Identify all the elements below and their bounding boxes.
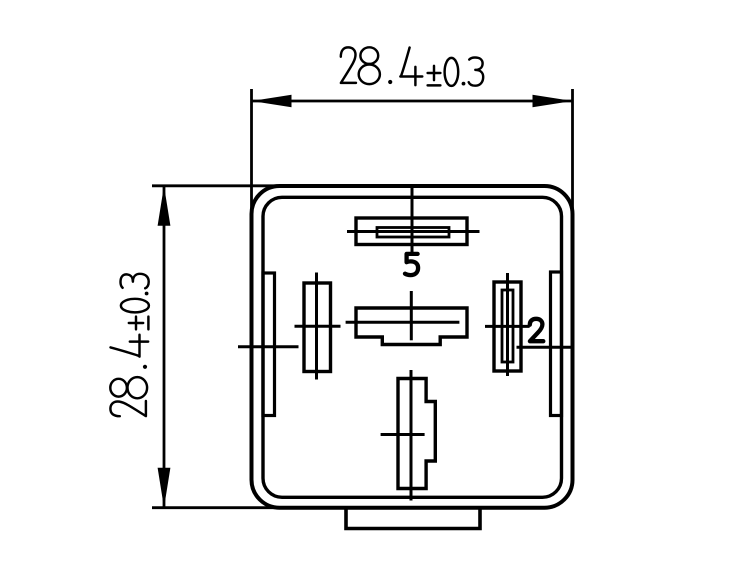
- left dimension extension line top: [152, 184, 285, 187]
- left terminal slot horizontal centerline: [295, 325, 341, 328]
- right inner rib: [551, 272, 562, 416]
- relay body outer outline: [252, 186, 573, 508]
- terminal slot 2 vertical centerline: [506, 273, 509, 376]
- top dimension extension line right: [571, 89, 574, 217]
- bottom terminal slot horizontal centerline: [381, 433, 425, 436]
- terminal slot 2 inner rectangle: [502, 290, 513, 362]
- relay body inner outline: [263, 197, 562, 497]
- bottom mounting tab: [346, 508, 480, 529]
- left inner rib: [263, 273, 275, 416]
- left terminal slot vertical centerline: [315, 273, 318, 380]
- body horizontal axis left segment: [238, 345, 299, 348]
- center terminal slot vertical centerline: [410, 291, 413, 340]
- left terminal slot rectangle: [304, 283, 331, 372]
- left dimension text 28.4±0.3 rotated: [110, 274, 149, 416]
- center terminal slot outline: [356, 308, 467, 345]
- top dimension arrow right: [533, 95, 573, 107]
- left dimension arrow top: [158, 186, 171, 226]
- terminal slot 5 vertical centerline: [411, 188, 414, 252]
- body horizontal axis right segment: [517, 346, 575, 349]
- pin label 2: [530, 319, 544, 341]
- pin label 5: [405, 254, 418, 275]
- terminal slot 2 outer rectangle: [494, 282, 521, 371]
- top dimension text 28.4±0.3: [341, 47, 483, 86]
- bottom terminal slot vertical centerline: [410, 370, 413, 501]
- terminal slot 5 inner rectangle: [377, 228, 449, 238]
- terminal slot 2 horizontal centerline: [485, 325, 530, 328]
- bottom terminal slot outline: [398, 379, 435, 489]
- left dimension arrow bottom: [158, 468, 171, 508]
- top dimension arrow left: [252, 95, 292, 107]
- terminal slot 5 outer rectangle: [356, 218, 467, 245]
- top dimension extension line left: [250, 89, 253, 214]
- center terminal slot horizontal centerline: [346, 321, 460, 324]
- left dimension extension line bottom: [152, 506, 290, 509]
- left dimension line: [163, 186, 166, 508]
- top dimension line: [252, 100, 573, 103]
- terminal slot 5 horizontal centerline: [347, 230, 480, 233]
